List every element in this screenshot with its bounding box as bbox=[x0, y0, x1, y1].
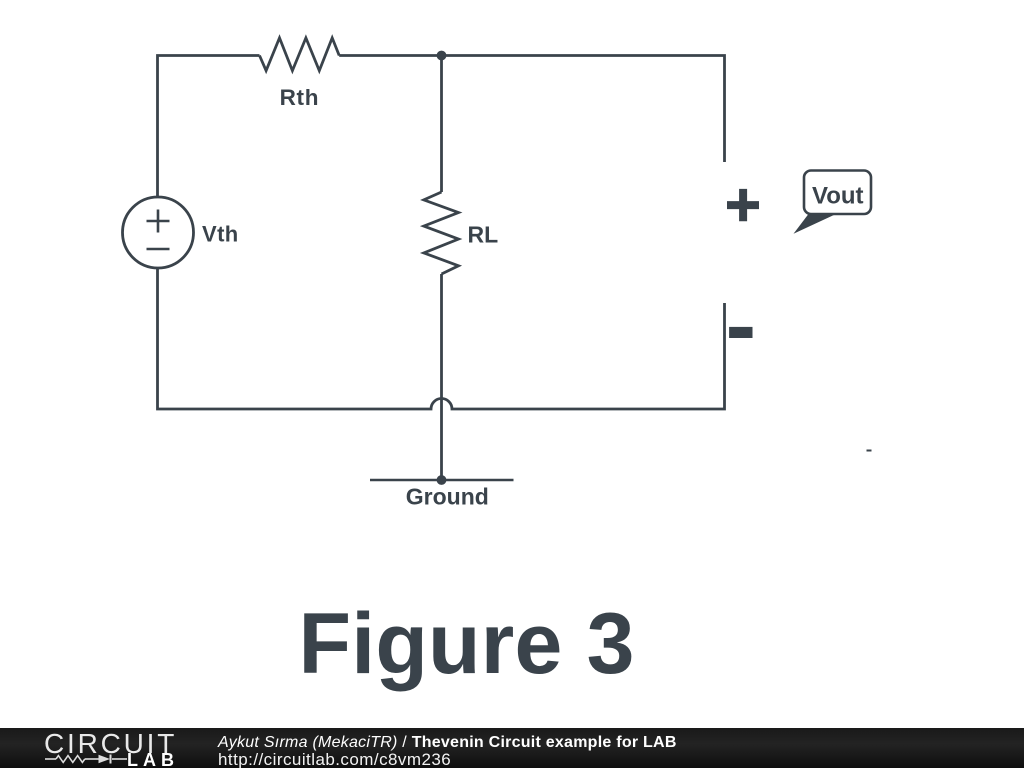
+ terminal symbol bbox=[727, 189, 759, 221]
Vth plus sign bbox=[147, 210, 170, 233]
wire: bottom rail with hop over RL lead, up to - terminal bbox=[158, 268, 725, 409]
wire: RL top lead from node A bbox=[440, 56, 443, 193]
svg-text:Vout: Vout bbox=[812, 182, 864, 209]
Vout callout tail bbox=[794, 212, 836, 234]
resistor Rth bbox=[260, 38, 340, 71]
resistor RL bbox=[424, 192, 459, 274]
ground junction dot bbox=[437, 475, 447, 485]
Vth minus sign bbox=[147, 248, 170, 251]
Vout callout bubble bbox=[804, 171, 871, 215]
svg-text:Vth: Vth bbox=[202, 222, 239, 247]
CircuitLab logo wordmark LAB bbox=[127, 750, 179, 768]
footer attribution line bbox=[218, 734, 677, 752]
wire: RL bottom lead down to ground bbox=[440, 274, 443, 480]
ground bar bbox=[370, 479, 514, 482]
wire: Vth top lead up and across to Rth bbox=[158, 56, 260, 198]
wire: Rth to top-right corner and down to + terminal bbox=[339, 56, 724, 163]
caption Figure 3 bbox=[299, 595, 635, 694]
svg-text:Ground: Ground bbox=[406, 484, 489, 510]
node A junction dot bbox=[437, 51, 447, 61]
- terminal symbol bbox=[729, 327, 752, 338]
voltage source Vth bbox=[123, 197, 194, 268]
footer url line bbox=[218, 750, 451, 768]
CircuitLab logo schematic squiggle (resistor + diode) bbox=[44, 751, 134, 767]
svg-text:RL: RL bbox=[468, 222, 499, 248]
CircuitLab logo wordmark CIRCUIT bbox=[44, 728, 177, 760]
footer bar bbox=[0, 728, 1024, 768]
svg-text:Rth: Rth bbox=[280, 85, 320, 110]
stray dash mark bbox=[867, 450, 872, 452]
